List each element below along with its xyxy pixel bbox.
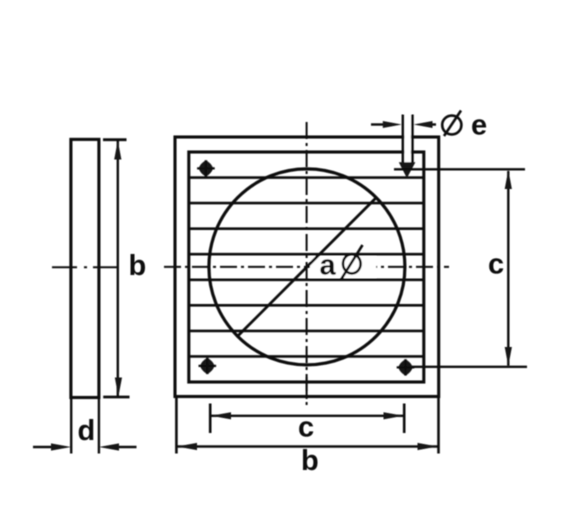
fan circle opening	[209, 169, 405, 365]
horizontal centerline	[164, 266, 449, 268]
diameter diagonal line	[238, 198, 377, 337]
label c right	[488, 249, 504, 281]
louver slat 1	[189, 176, 424, 179]
dimension c bottom	[211, 412, 404, 419]
svg-text:e: e	[471, 110, 487, 142]
hole e edge lines	[403, 115, 413, 163]
hole gap mask	[404, 113, 411, 163]
label b (side view)	[129, 250, 147, 282]
grille inner frame	[189, 152, 424, 382]
svg-text:c: c	[488, 249, 504, 281]
leader arrow to hole	[400, 163, 415, 177]
diameter symbol of a	[341, 245, 363, 280]
louver slat 5	[189, 278, 424, 281]
label d	[78, 415, 96, 447]
svg-text:c: c	[298, 412, 314, 444]
louver slat 8	[189, 355, 424, 358]
louver slat 7	[189, 330, 424, 333]
mounting hole bottom-left	[199, 358, 217, 374]
svg-text:d: d	[78, 415, 96, 447]
dimension c right extension lines	[394, 169, 527, 366]
svg-text:b: b	[129, 250, 147, 282]
dimension d arrows	[33, 443, 137, 450]
centerline of side view	[52, 266, 123, 268]
dimension b bottom extension lines	[176, 398, 438, 454]
louver slat 4	[189, 253, 424, 256]
label mask	[310, 257, 376, 278]
louver slat 3	[189, 227, 424, 230]
dimension d extension lines	[71, 399, 99, 454]
louver slat 2	[189, 202, 424, 205]
dimension c bottom ticks	[210, 404, 404, 434]
dimension c right	[505, 170, 512, 366]
mounting hole top-left	[197, 160, 215, 176]
dimension b bottom	[177, 443, 438, 450]
vertical centerline	[306, 122, 308, 405]
label a	[320, 250, 337, 282]
label c bottom	[298, 412, 314, 444]
svg-text:a: a	[320, 250, 337, 282]
svg-text:b: b	[301, 445, 319, 477]
louver slat 6	[189, 304, 424, 307]
grille outer frame	[175, 137, 439, 397]
mounting hole bottom-right	[397, 359, 415, 375]
label e	[471, 110, 487, 142]
dimension e arrows	[371, 121, 436, 128]
dimension b (side view)	[103, 140, 130, 397]
label b bottom	[301, 445, 319, 477]
diameter symbol of e	[442, 111, 461, 137]
side view plate	[71, 139, 99, 397]
